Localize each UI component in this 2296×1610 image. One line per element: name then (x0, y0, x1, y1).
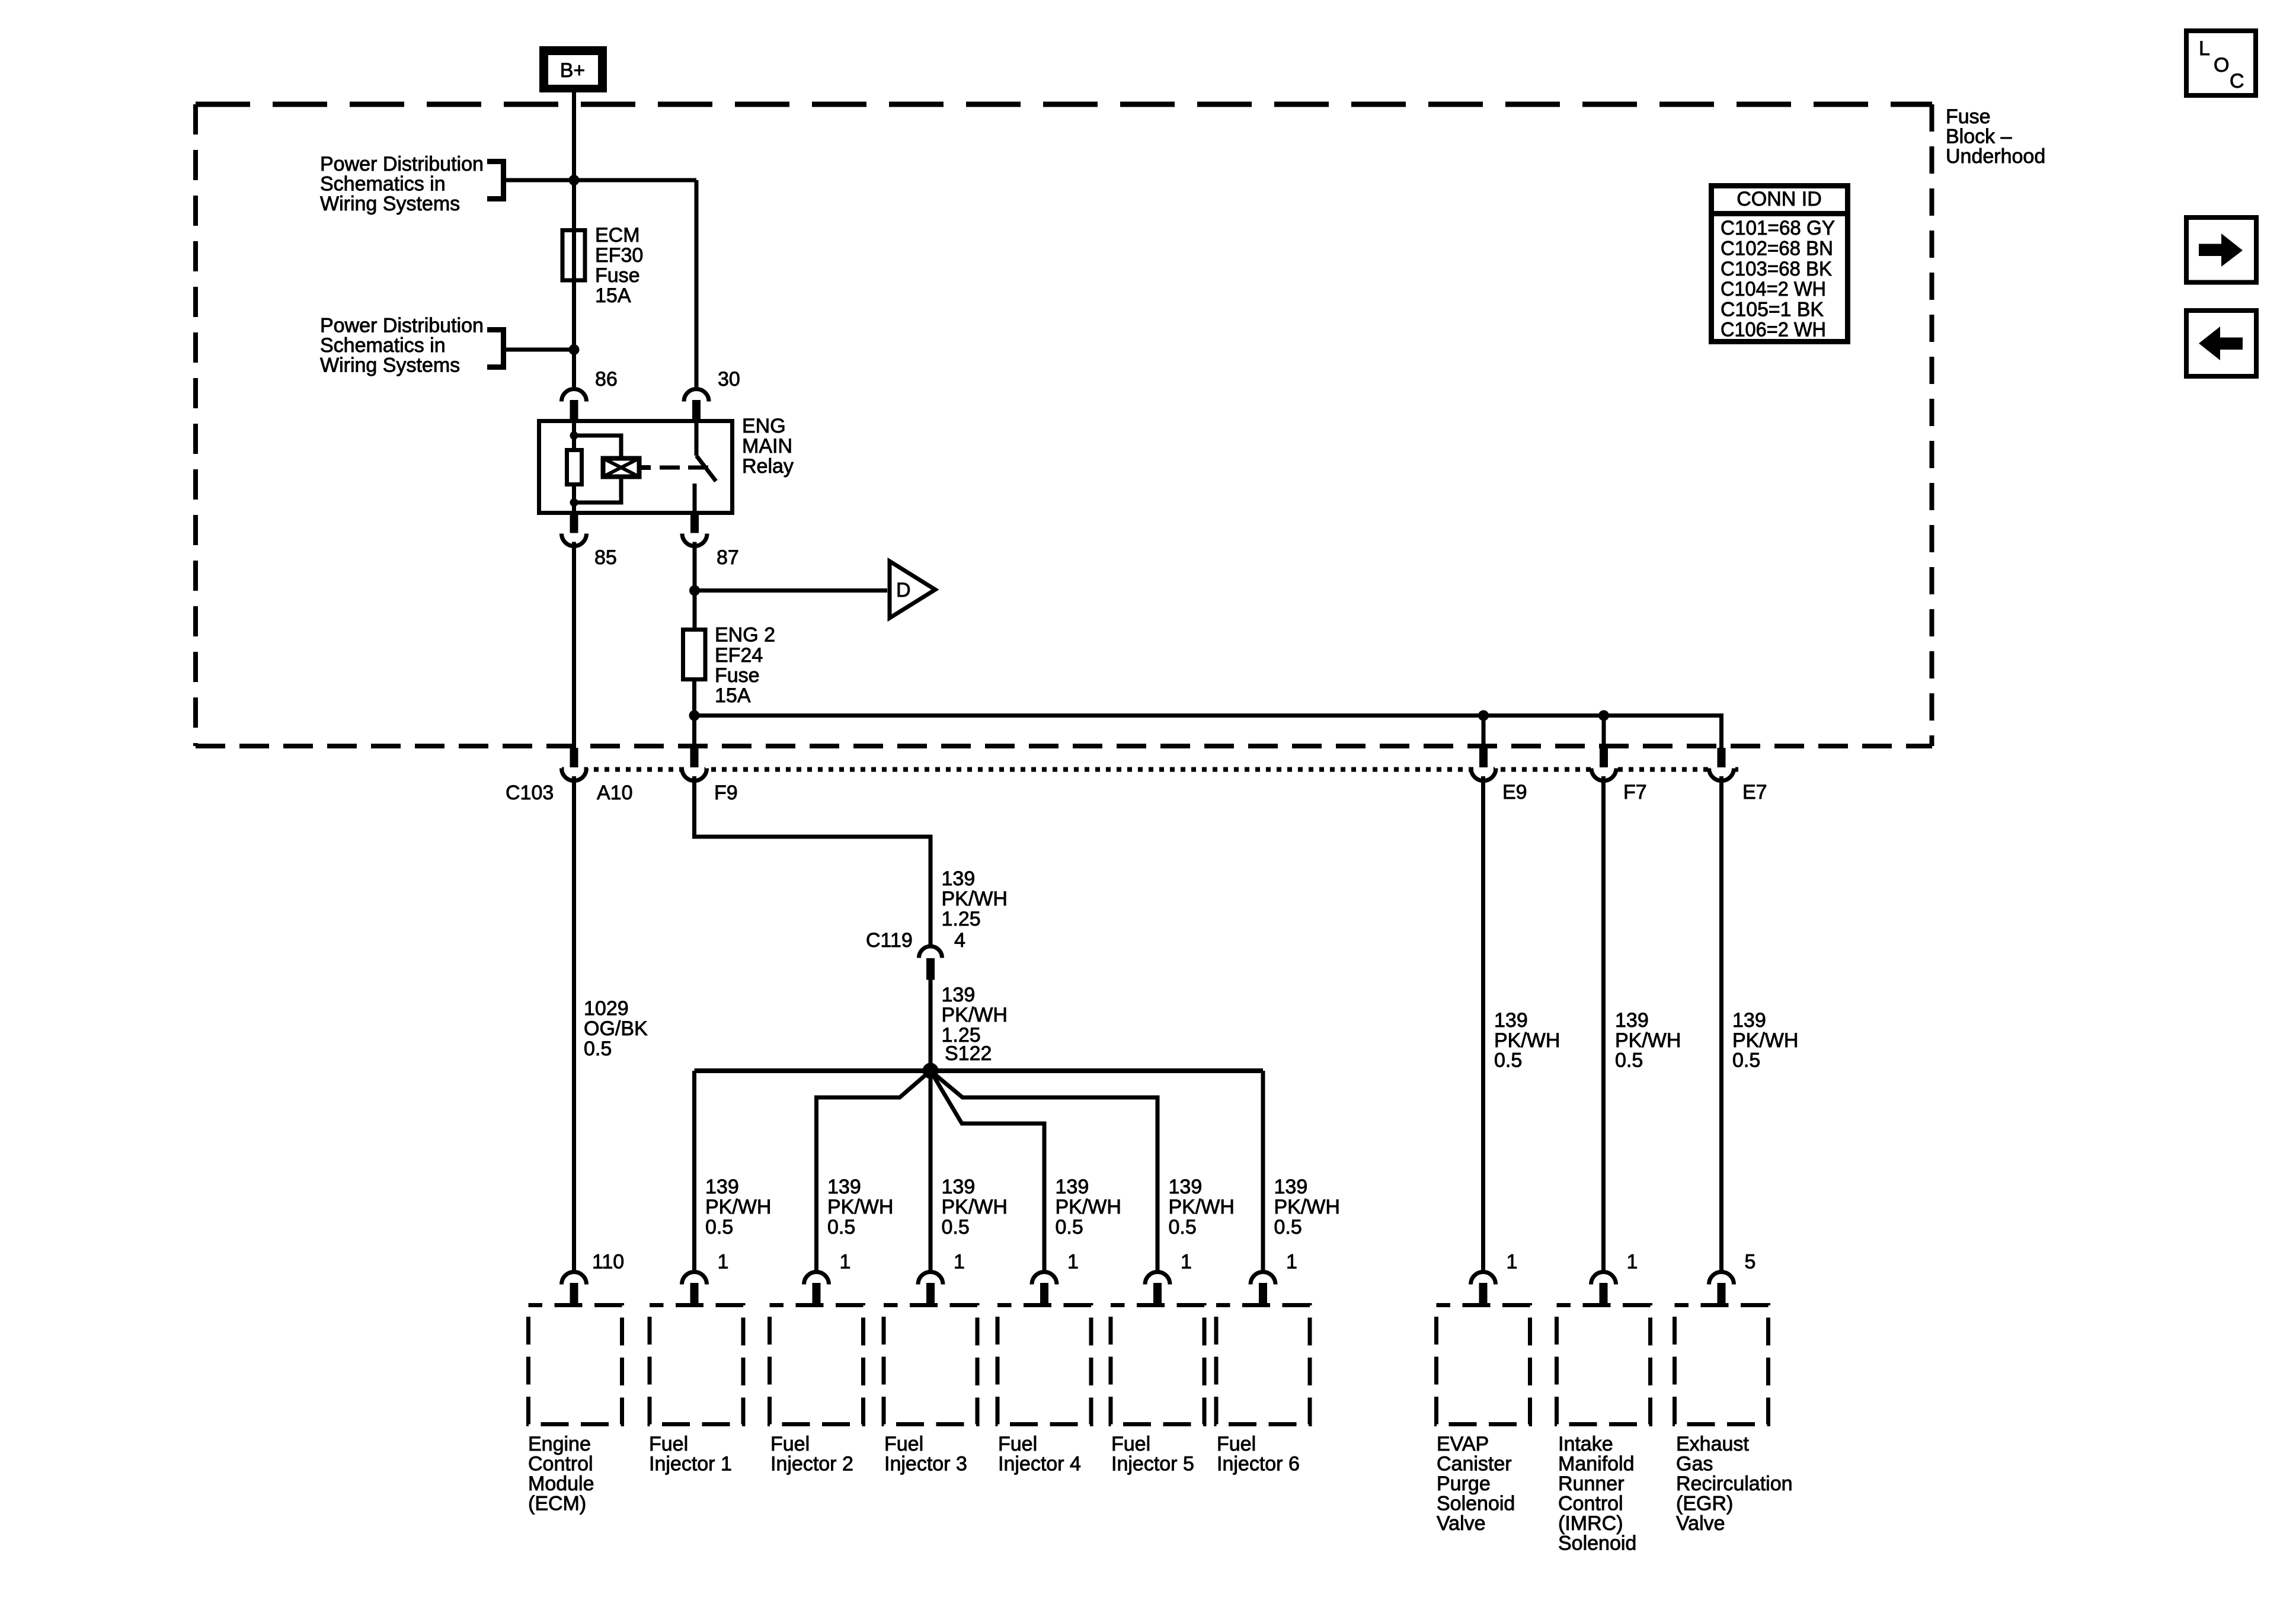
power node B+ (539, 46, 607, 92)
svg-text:E7: E7 (1742, 781, 1767, 804)
connector female pin 87 (682, 534, 707, 546)
svg-text:ECM: ECM (595, 224, 640, 247)
connector C103 pin A10 male (570, 748, 578, 767)
svg-text:1.25: 1.25 (942, 908, 981, 930)
svg-text:Fuse: Fuse (595, 264, 640, 287)
fuse ENG 2 EF24 15A (683, 630, 706, 680)
svg-text:C103=68 BK: C103=68 BK (1721, 258, 1832, 280)
connector IMRC female (1591, 1272, 1616, 1285)
svg-text:(IMRC): (IMRC) (1558, 1512, 1623, 1535)
label wire 139 PK/WH 0.5 injector 3 (942, 1176, 1008, 1238)
svg-text:87: 87 (717, 546, 739, 569)
svg-text:PK/WH: PK/WH (1169, 1196, 1235, 1218)
svg-text:EVAP: EVAP (1437, 1433, 1489, 1455)
svg-text:Solenoid: Solenoid (1558, 1532, 1636, 1555)
wire S122 to fuel injector 2 (817, 1071, 931, 1272)
svg-text:1: 1 (1507, 1251, 1518, 1273)
svg-text:Schematics in: Schematics in (320, 334, 446, 357)
svg-text:PK/WH: PK/WH (1615, 1029, 1681, 1052)
svg-text:Fuel: Fuel (998, 1433, 1037, 1455)
svg-text:1: 1 (954, 1251, 965, 1273)
svg-text:Solenoid: Solenoid (1437, 1493, 1515, 1515)
junction dot coil bottom (570, 498, 578, 507)
wire B+ feed down (572, 92, 576, 387)
svg-text:4: 4 (954, 929, 965, 952)
bracket for upper Power Distribution reference (487, 159, 504, 201)
label Exhaust Gas Recirculation (EGR) Valve (1676, 1433, 1793, 1535)
label wire 139 PK/WH 0.5 injector 1 (705, 1176, 771, 1238)
relay switch blade (696, 456, 716, 481)
LOC reference box top right (2186, 31, 2256, 95)
box Fuel Injector 1 dashed (650, 1305, 743, 1425)
wire S122 to fuel injector 4 (930, 1071, 1044, 1272)
svg-text:0.5: 0.5 (1615, 1049, 1643, 1072)
connector male pin 30 (692, 400, 701, 419)
svg-text:MAIN: MAIN (742, 435, 792, 457)
svg-text:A10: A10 (597, 782, 633, 804)
svg-text:139: 139 (827, 1176, 861, 1198)
svg-text:Injector 2: Injector 2 (770, 1453, 853, 1475)
wire down to relay pin 30 (695, 180, 699, 387)
svg-text:Injector 6: Injector 6 (1217, 1453, 1300, 1475)
svg-text:1029: 1029 (584, 997, 629, 1020)
junction dot at B+ feed / PD wire (569, 175, 580, 185)
svg-text:139: 139 (1615, 1009, 1649, 1032)
connector C103 pin F9 male (690, 748, 699, 767)
label Fuel Injector 3 (884, 1433, 967, 1475)
box Fuel Injector 2 dashed (770, 1305, 864, 1425)
connector injector 1 female (682, 1272, 707, 1285)
svg-text:Module: Module (528, 1473, 594, 1495)
svg-text:C104=2 WH: C104=2 WH (1721, 278, 1826, 300)
svg-text:86: 86 (595, 368, 618, 391)
label EVAP Canister Purge Solenoid Valve (1437, 1433, 1515, 1535)
connector injector 2 female (804, 1272, 829, 1285)
wire S122 to fuel injector 1 (692, 1071, 696, 1272)
svg-text:OG/BK: OG/BK (584, 1017, 648, 1040)
svg-text:(EGR): (EGR) (1676, 1493, 1733, 1515)
label wire 139 PK/WH 1.25 upper (942, 868, 1008, 930)
svg-text:C103: C103 (506, 782, 554, 804)
svg-text:110: 110 (592, 1251, 624, 1273)
label Fuse Block - Underhood (1946, 105, 2045, 168)
wire E7 branch down (1719, 713, 1723, 748)
resistor relay internal (567, 436, 582, 502)
connector C103 pin E7 female (1709, 769, 1734, 781)
svg-text:Relay: Relay (742, 455, 794, 478)
svg-text:139: 139 (1732, 1009, 1766, 1032)
svg-text:EF24: EF24 (715, 644, 763, 667)
svg-text:Wiring Systems: Wiring Systems (320, 193, 460, 215)
svg-text:5: 5 (1745, 1251, 1756, 1273)
svg-text:1: 1 (718, 1251, 729, 1273)
dashed actuation link coil to switch (660, 466, 711, 470)
svg-text:85: 85 (594, 546, 617, 569)
back arrow navigation box (2186, 311, 2256, 376)
svg-text:Fuel: Fuel (884, 1433, 923, 1455)
svg-text:C101=68 GY: C101=68 GY (1721, 217, 1835, 239)
svg-text:O: O (2214, 54, 2229, 76)
svg-text:1: 1 (1181, 1251, 1192, 1273)
connector C103 pin F9 female (682, 769, 707, 781)
label Fuel Injector 5 (1111, 1433, 1194, 1475)
svg-text:Recirculation: Recirculation (1676, 1473, 1793, 1495)
svg-text:Manifold: Manifold (1558, 1453, 1635, 1475)
svg-text:C119: C119 (866, 929, 913, 952)
connector male pin 87 (690, 515, 699, 533)
wire to connector D (695, 588, 887, 593)
junction dot ENG2 output (689, 710, 700, 721)
svg-text:Intake: Intake (1558, 1433, 1613, 1455)
svg-text:Injector 1: Injector 1 (649, 1453, 732, 1475)
wire E9 to EVAP solenoid (1481, 776, 1485, 1272)
connector injector 6 female (1251, 1272, 1275, 1285)
svg-text:1: 1 (840, 1251, 851, 1273)
connector injector 3 male (926, 1283, 935, 1305)
svg-text:PK/WH: PK/WH (1494, 1029, 1560, 1052)
svg-text:139: 139 (1169, 1176, 1203, 1198)
svg-text:PK/WH: PK/WH (1732, 1029, 1798, 1052)
connector female pin 30 (684, 389, 709, 402)
box Fuel Injector 6 dashed (1216, 1305, 1310, 1425)
wire relay coil feed (572, 423, 576, 436)
svg-text:PK/WH: PK/WH (942, 1004, 1008, 1026)
connector injector 6 male (1259, 1283, 1267, 1305)
connector injector 3 female (918, 1272, 943, 1285)
relay coil symbol (603, 459, 651, 477)
connector EVAP male (1479, 1283, 1488, 1305)
fuse ECM EF30 15A (562, 231, 585, 281)
wire F7 to IMRC solenoid (1601, 776, 1606, 1272)
svg-text:0.5: 0.5 (827, 1216, 855, 1238)
svg-text:1: 1 (1067, 1251, 1079, 1273)
label Fuel Injector 2 (770, 1433, 853, 1475)
label Power Distribution Schematics in Wiring Systems (lower) (320, 315, 484, 377)
connector injector 2 male (813, 1283, 821, 1305)
wire fuse ENG2 output down (692, 680, 696, 748)
connector EGR male (1718, 1283, 1726, 1305)
box EVAP Canister Purge Solenoid Valve dashed (1437, 1305, 1530, 1425)
wire coil branch bottom (574, 479, 622, 502)
box Fuel Injector 5 dashed (1111, 1305, 1204, 1425)
svg-text:PK/WH: PK/WH (1274, 1196, 1340, 1218)
svg-text:L: L (2199, 37, 2210, 60)
svg-text:Canister: Canister (1437, 1453, 1512, 1475)
svg-text:1: 1 (1627, 1251, 1638, 1273)
bracket for lower Power Distribution reference (487, 327, 504, 370)
connector ECM pin 110 female (562, 1272, 587, 1285)
svg-text:CONN ID: CONN ID (1737, 188, 1822, 210)
svg-text:PK/WH: PK/WH (942, 1196, 1008, 1218)
svg-text:Injector 5: Injector 5 (1111, 1453, 1194, 1475)
svg-text:Fuel: Fuel (770, 1433, 810, 1455)
wire from lower Power Distribution reference (506, 348, 574, 352)
label Fuel Injector 4 (998, 1433, 1081, 1475)
svg-text:C: C (2230, 70, 2244, 92)
svg-text:Wiring Systems: Wiring Systems (320, 354, 460, 377)
svg-text:0.5: 0.5 (1056, 1216, 1083, 1238)
svg-text:C105=1 BK: C105=1 BK (1721, 299, 1824, 321)
wire C119 to splice S122 (929, 980, 933, 1071)
svg-text:E9: E9 (1502, 781, 1527, 804)
junction dot F7 branch (1598, 710, 1609, 721)
label wire 139 PK/WH 0.5 EVAP (1494, 1009, 1560, 1072)
svg-text:PK/WH: PK/WH (705, 1196, 771, 1218)
connector row C103 dotted line (562, 767, 1738, 772)
connector injector 5 female (1145, 1272, 1170, 1285)
wire S122 to fuel injector 3 (929, 1071, 933, 1272)
relay switch lower contact to pin 87 (693, 484, 697, 513)
svg-text:C102=68 BN: C102=68 BN (1721, 238, 1833, 260)
fuse block underhood dashed border left (193, 104, 198, 746)
connector female pin 85 (562, 534, 587, 546)
wire splice bus S122 (695, 1068, 1264, 1073)
white gap masks under row connectors (564, 767, 1732, 773)
connector injector 4 female (1032, 1272, 1057, 1285)
wire E7 to EGR valve (1719, 776, 1723, 1272)
wire from upper Power Distribution reference to B+ feed and relay pin 30 (506, 178, 696, 183)
wire coil branch top (574, 436, 622, 456)
connector injector 5 male (1153, 1283, 1162, 1305)
wire bus to EVAP IMRC EGR branches (695, 713, 1722, 718)
label wire 139 PK/WH 0.5 injector 2 (827, 1176, 893, 1238)
connector C103 pin F7 female (1591, 769, 1616, 781)
label Fuel Injector 6 (1217, 1433, 1300, 1475)
label ECM EF30 Fuse 15A (595, 224, 643, 307)
svg-text:ENG: ENG (742, 415, 786, 437)
connector injector 1 male (690, 1283, 699, 1305)
connector EVAP female (1471, 1272, 1496, 1285)
svg-text:Exhaust: Exhaust (1676, 1433, 1749, 1455)
wire coil to bottom pin (572, 502, 576, 513)
svg-text:Injector 3: Injector 3 (884, 1453, 967, 1475)
svg-text:Valve: Valve (1437, 1512, 1486, 1535)
svg-text:0.5: 0.5 (1274, 1216, 1302, 1238)
svg-text:Fuel: Fuel (1111, 1433, 1150, 1455)
label wire 139 PK/WH 0.5 injector 5 (1169, 1176, 1235, 1238)
svg-text:Runner: Runner (1558, 1473, 1625, 1495)
svg-text:1: 1 (1286, 1251, 1297, 1273)
label Fuel Injector 1 (649, 1433, 732, 1475)
svg-text:PK/WH: PK/WH (942, 888, 1008, 910)
label wire 1029 OG/BK 0.5 (584, 997, 648, 1060)
svg-text:Fuse: Fuse (715, 664, 760, 687)
box Engine Control Module dashed (529, 1305, 622, 1425)
svg-text:139: 139 (705, 1176, 739, 1198)
connector C103 pin A10 female (562, 769, 587, 781)
label wire 139 PK/WH 0.5 injector 6 (1274, 1176, 1340, 1238)
junction dot coil top (570, 431, 578, 440)
svg-text:0.5: 0.5 (584, 1038, 612, 1060)
svg-text:139: 139 (942, 1176, 976, 1198)
svg-text:F7: F7 (1623, 781, 1647, 804)
svg-text:Fuel: Fuel (1217, 1433, 1256, 1455)
wire pin 87 down (693, 542, 697, 630)
svg-text:Purge: Purge (1437, 1473, 1491, 1495)
svg-text:Underhood: Underhood (1946, 145, 2045, 168)
forward arrow navigation box (2186, 217, 2256, 283)
connector IMRC male (1600, 1283, 1608, 1305)
relay K ENG MAIN box (539, 421, 733, 513)
connector male pin 86 (570, 400, 578, 419)
box Exhaust Gas Recirculation Valve dashed (1675, 1305, 1769, 1425)
connector EGR female (1709, 1272, 1734, 1285)
svg-text:Fuel: Fuel (649, 1433, 688, 1455)
wire S122 to fuel injector 6 (1261, 1071, 1265, 1272)
svg-text:139: 139 (942, 984, 976, 1006)
junction dot at lower PD wire (569, 344, 580, 355)
svg-text:Gas: Gas (1676, 1453, 1713, 1475)
junction dot pin 87 branch (689, 585, 700, 596)
connector C119 male pin (926, 958, 935, 980)
connector female pin 86 (562, 389, 587, 402)
label wire 139 PK/WH 0.5 EGR (1732, 1009, 1798, 1072)
fuse block underhood dashed border bottom (196, 744, 1932, 748)
label Power Distribution Schematics in Wiring Systems (upper) (320, 153, 484, 215)
svg-text:EF30: EF30 (595, 244, 643, 267)
wire pin 85 down to connector A10 (572, 542, 576, 748)
svg-text:0.5: 0.5 (705, 1216, 733, 1238)
fuse block underhood dashed border right (1930, 104, 1934, 746)
wire S122 to fuel injector 5 (930, 1071, 1157, 1272)
svg-text:D: D (896, 579, 911, 601)
connector C103 pin E9 male (1479, 748, 1488, 767)
svg-text:Control: Control (528, 1453, 593, 1475)
label Engine Control Module (ECM) (528, 1433, 594, 1515)
svg-text:(ECM): (ECM) (528, 1493, 586, 1515)
svg-text:0.5: 0.5 (1169, 1216, 1197, 1238)
svg-text:139: 139 (1274, 1176, 1308, 1198)
wire E9 branch down (1482, 716, 1486, 748)
svg-text:PK/WH: PK/WH (827, 1196, 893, 1218)
svg-text:Schematics in: Schematics in (320, 173, 446, 196)
junction dot E9 branch (1478, 710, 1489, 721)
svg-text:B+: B+ (560, 59, 586, 82)
box Fuel Injector 3 dashed (884, 1305, 977, 1425)
label Intake Manifold Runner Control (IMRC) Solenoid (1558, 1433, 1636, 1555)
svg-text:139: 139 (1494, 1009, 1528, 1032)
svg-text:Control: Control (1558, 1493, 1623, 1515)
svg-text:C106=2 WH: C106=2 WH (1721, 319, 1826, 341)
svg-text:30: 30 (718, 368, 740, 391)
box Fuel Injector 4 dashed (997, 1305, 1091, 1425)
label wire 139 PK/WH 0.5 injector 4 (1056, 1176, 1121, 1238)
svg-text:0.5: 0.5 (1732, 1049, 1760, 1072)
wire 1029 OG/BK to ECM (572, 776, 576, 1272)
connector ECM pin 110 male (570, 1283, 578, 1305)
wire F7 branch down (1602, 716, 1606, 748)
label ENG MAIN Relay (742, 415, 794, 478)
svg-text:Injector 4: Injector 4 (998, 1453, 1081, 1475)
svg-text:ENG 2: ENG 2 (715, 624, 775, 646)
svg-text:Block –: Block – (1946, 126, 2012, 148)
connector injector 4 male (1040, 1283, 1048, 1305)
CONN ID table (1712, 186, 1848, 342)
svg-text:F9: F9 (714, 782, 738, 804)
connector C103 pin E7 male (1718, 748, 1726, 767)
fuse block underhood dashed border top (196, 102, 1932, 107)
svg-text:139: 139 (942, 868, 976, 890)
splice S122 junction dot (923, 1063, 939, 1079)
wire F9 to C119 (695, 776, 931, 946)
label wire 139 PK/WH 1.25 lower (942, 984, 1008, 1046)
label ENG 2 EF24 Fuse 15A (715, 624, 775, 708)
connector C119 female (919, 946, 942, 958)
relay switch fixed contact from pin 30 (695, 423, 699, 456)
svg-text:139: 139 (1056, 1176, 1089, 1198)
svg-text:S122: S122 (945, 1042, 992, 1065)
connector C103 pin F7 male (1600, 748, 1608, 767)
box Intake Manifold Runner Control Solenoid dashed (1557, 1305, 1651, 1425)
svg-text:0.5: 0.5 (942, 1216, 970, 1238)
svg-text:Power Distribution: Power Distribution (320, 153, 484, 175)
connector C103 pin E9 female (1471, 769, 1496, 781)
svg-text:Engine: Engine (528, 1433, 591, 1455)
off-page connector D triangle (890, 561, 935, 618)
svg-text:0.5: 0.5 (1494, 1049, 1522, 1072)
connector male pin 85 (570, 515, 578, 533)
svg-text:Power Distribution: Power Distribution (320, 315, 484, 337)
label wire 139 PK/WH 0.5 IMRC (1615, 1009, 1681, 1072)
svg-text:15A: 15A (595, 284, 631, 307)
svg-text:15A: 15A (715, 684, 751, 707)
svg-text:Valve: Valve (1676, 1512, 1725, 1535)
svg-text:PK/WH: PK/WH (1056, 1196, 1121, 1218)
svg-text:Fuse: Fuse (1946, 105, 1991, 128)
